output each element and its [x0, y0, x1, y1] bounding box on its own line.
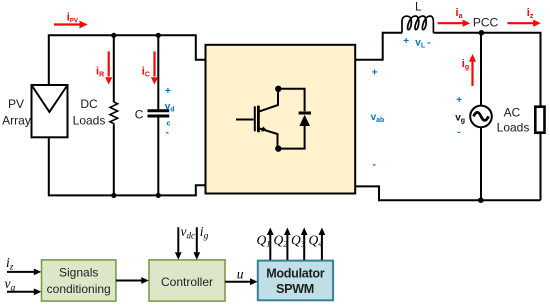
- svg-text:PV: PV: [8, 97, 24, 111]
- svg-text:c: c: [167, 120, 171, 127]
- capacitor C: [148, 111, 170, 116]
- wire inverter to AC side (top stub): [355, 33, 402, 60]
- svg-text:Controller: Controller: [161, 275, 213, 289]
- wire PCC to source: [480, 33, 482, 106]
- svg-text:-: -: [427, 38, 430, 49]
- wire top bus (left DC side): [49, 35, 206, 85]
- wire capacitor branch: [157, 35, 159, 195]
- signal arrow vdc into controller: [175, 227, 182, 259]
- source vg (AC grid): [470, 106, 492, 128]
- svg-text:Loads: Loads: [497, 120, 530, 134]
- wire resistor branch: [113, 35, 115, 195]
- svg-text:-: -: [166, 128, 169, 139]
- inverter block: [206, 45, 356, 194]
- wire inductor to PCC to right: [433, 33, 540, 107]
- gate arrow Q1: [267, 228, 274, 260]
- collector node dot: [275, 86, 281, 92]
- label vg source: [455, 95, 465, 138]
- svg-text:Signals: Signals: [59, 265, 98, 279]
- svg-text:AC: AC: [504, 105, 521, 119]
- svg-text:+: +: [165, 86, 171, 97]
- label vab inverter output voltage: [371, 68, 385, 171]
- label vL inductor voltage: [403, 36, 430, 49]
- resistor DC Loads: [110, 102, 118, 125]
- node A (top resistor): [111, 33, 116, 38]
- svg-text:u: u: [237, 267, 244, 282]
- wire IGBT to diode: [278, 89, 304, 149]
- svg-text:SPWM: SPWM: [276, 282, 314, 296]
- current arrow ig (grid): [469, 54, 476, 86]
- gate arrow Q4: [319, 228, 326, 260]
- svg-text:DC: DC: [80, 97, 98, 111]
- svg-text:+: +: [456, 95, 462, 106]
- gate arrow Q2: [284, 228, 291, 260]
- emitter arrow of IGBT: [261, 126, 267, 131]
- svg-text:L: L: [415, 0, 422, 14]
- svg-text:PCC: PCC: [473, 16, 499, 30]
- signal arrow conditioning to controller: [116, 277, 149, 284]
- wire bottom bus (left DC side): [49, 137, 206, 195]
- node PCC: [479, 30, 485, 36]
- node bottom PCC return: [478, 197, 484, 203]
- current arrow ia: [438, 20, 471, 27]
- node C (bottom resistor): [111, 193, 116, 198]
- block Signals conditioning: [42, 260, 116, 301]
- label vd capacitor voltage: [165, 86, 175, 139]
- inductor L: [402, 16, 433, 33]
- current arrow iz (to AC loads): [508, 20, 541, 27]
- svg-text:Array: Array: [2, 114, 31, 128]
- current arrow iC: [151, 51, 158, 84]
- node D (bottom capacitor): [156, 193, 161, 198]
- signal arrow u controller to modulator: [225, 278, 258, 285]
- wire load bottom: [540, 133, 542, 201]
- block Modulator SPWM: [258, 261, 333, 301]
- AC load: [535, 107, 544, 133]
- emitter node dot: [275, 145, 281, 151]
- signal arrow vg input: [7, 288, 41, 295]
- transistor Q (IGBT): [236, 90, 278, 146]
- wire source to bottom: [480, 127, 482, 200]
- PV array PV: [32, 85, 68, 137]
- block Controller: [149, 260, 225, 301]
- node B (top capacitor): [156, 33, 161, 38]
- svg-text:Modulator: Modulator: [266, 267, 325, 281]
- svg-text:-: -: [373, 159, 376, 170]
- svg-text:-: -: [457, 127, 460, 138]
- svg-text:+: +: [372, 68, 378, 79]
- label DC Loads: [73, 97, 106, 128]
- svg-text:Loads: Loads: [73, 114, 106, 128]
- svg-text:+: +: [403, 36, 409, 47]
- svg-text:C: C: [135, 107, 144, 121]
- diode D (antiparallel): [299, 113, 311, 126]
- signal arrow ig into controller: [193, 227, 200, 259]
- wire inverter to AC side (bottom stub): [355, 186, 540, 200]
- svg-text:conditioning: conditioning: [47, 282, 111, 296]
- current arrow iR: [105, 51, 112, 84]
- gate arrow Q3: [301, 228, 308, 260]
- signal arrow iz input: [7, 269, 41, 276]
- current arrow iPV: [54, 21, 88, 29]
- label AC Loads: [497, 105, 530, 134]
- label PV Array: [2, 97, 31, 128]
